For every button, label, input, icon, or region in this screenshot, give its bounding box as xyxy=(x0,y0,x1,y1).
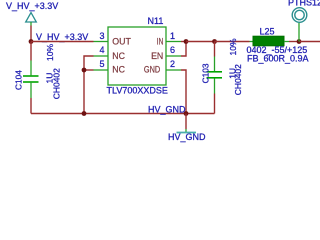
ground symbol HV_GND bar xyxy=(177,132,197,134)
junction dot at (186,113.5) xyxy=(184,111,189,116)
capacitor C104 xyxy=(23,61,39,99)
wire pin5 to tie xyxy=(84,69,94,71)
svg-text:6: 6 xyxy=(170,45,175,55)
junction dot at (84,113.5) xyxy=(82,111,87,116)
wire power to junction xyxy=(30,26,32,42)
pin 2 stub xyxy=(166,69,181,71)
op-amp U1 / regulator N11 body xyxy=(108,27,166,85)
wire C103 bottom to rail xyxy=(214,94,216,114)
junction dot at (214.5,41.5) xyxy=(212,39,217,44)
wire junction down to C104 xyxy=(30,42,32,61)
svg-text:HV_GND: HV_GND xyxy=(168,132,206,142)
junction dot at (31,41.5) xyxy=(29,39,34,44)
svg-text:PTHS12: PTHS12 xyxy=(288,0,320,8)
svg-text:3: 3 xyxy=(99,31,104,41)
svg-text:GND: GND xyxy=(144,65,160,75)
power port pin stub xyxy=(30,22,32,26)
svg-text:V_HV_+3.3V: V_HV_+3.3V xyxy=(36,32,88,42)
wire junction to OUT pin xyxy=(31,41,94,43)
inductor L25 left stub xyxy=(250,41,254,43)
svg-text:10%: 10% xyxy=(228,38,238,55)
test point pin wire xyxy=(298,23,300,42)
svg-text:CH0402: CH0402 xyxy=(52,68,62,99)
svg-text:N11: N11 xyxy=(148,16,164,26)
wire NC pins tie vertical xyxy=(84,56,94,114)
junction dot at (299,41.5) xyxy=(297,39,302,44)
wire IN pin to junction xyxy=(181,41,186,43)
pin 5 stub xyxy=(94,69,109,71)
svg-text:NC: NC xyxy=(112,51,125,61)
svg-text:TLV700XXDSE: TLV700XXDSE xyxy=(107,86,168,96)
svg-text:FB_600R_0.9A: FB_600R_0.9A xyxy=(247,54,309,64)
svg-text:4: 4 xyxy=(99,45,104,55)
wire C104 down to ground rail xyxy=(30,98,32,114)
pin 3 stub xyxy=(94,41,109,43)
svg-text:2: 2 xyxy=(170,59,175,69)
ground rail wire xyxy=(31,113,215,115)
svg-text:IN: IN xyxy=(157,37,164,47)
pin 6 stub xyxy=(166,55,181,57)
power port V_HV_+3.3V triangle symbol xyxy=(26,13,37,22)
svg-text:EN: EN xyxy=(151,51,163,61)
svg-text:V_HV_+3.3V: V_HV_+3.3V xyxy=(6,1,58,11)
svg-text:C103: C103 xyxy=(200,63,210,83)
wire to right edge xyxy=(299,41,320,43)
wire C103 down xyxy=(214,42,216,57)
svg-text:1: 1 xyxy=(170,31,175,41)
capacitor C103 xyxy=(207,57,223,94)
svg-text:CH0402: CH0402 xyxy=(233,64,243,95)
svg-text:OUT: OUT xyxy=(112,37,131,47)
svg-text:NC: NC xyxy=(112,65,125,75)
wire EN pin up to IN net xyxy=(181,42,186,57)
inductor L25 body xyxy=(253,36,284,46)
test point inner circle xyxy=(295,10,304,19)
ground symbol pin stub xyxy=(185,129,187,132)
svg-text:L25: L25 xyxy=(260,27,275,37)
junction dot at (84,70) xyxy=(82,68,87,73)
svg-text:HV_GND: HV_GND xyxy=(148,104,186,114)
wire IN net to C103 tap xyxy=(186,41,215,43)
pin 1 stub xyxy=(166,41,181,43)
svg-text:10%: 10% xyxy=(45,44,55,61)
test point outer circle xyxy=(292,8,307,23)
junction dot at (186,41.5) xyxy=(184,39,189,44)
wire GND pin down to rail xyxy=(181,70,186,114)
ground symbol drop wire xyxy=(185,114,187,130)
inductor L25 right stub xyxy=(284,41,289,43)
svg-text:5: 5 xyxy=(99,59,104,69)
wire C103 tap to L25 xyxy=(215,41,250,43)
wire L25 to test point junction xyxy=(289,41,299,43)
svg-text:C104: C104 xyxy=(13,70,23,90)
pin 4 stub xyxy=(94,55,109,57)
